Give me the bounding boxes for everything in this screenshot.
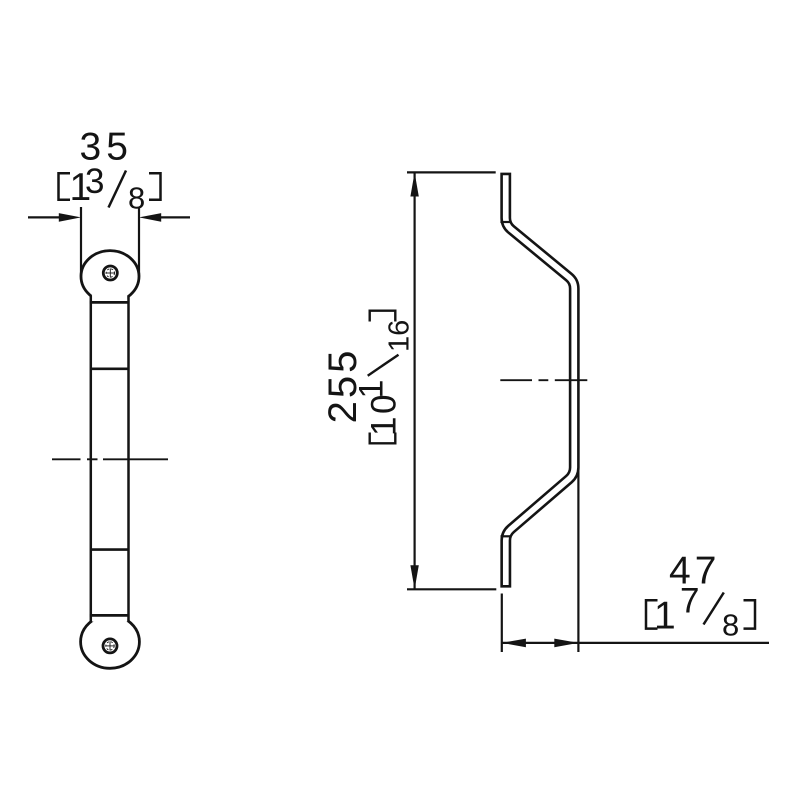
arrow up [410,172,418,196]
extension line bottom [407,588,496,590]
extension line 47 right [577,470,579,652]
dimension line 47 [502,642,769,644]
svg-text:1: 1 [365,417,404,436]
junction line top [90,301,130,304]
bend line bottom [501,535,512,537]
text [10 1/16] (rotated) [353,311,416,444]
centerline left view [52,458,81,460]
bottom screw [103,639,117,653]
arrow left (pointing left) [502,639,526,648]
handle profile outline [506,173,575,588]
extension line top [407,171,496,173]
extension line left (x=81) [80,207,82,276]
svg-text:1: 1 [353,380,391,399]
joint line upper [90,367,129,370]
joint line lower [90,548,129,551]
svg-text:8: 8 [722,608,739,643]
dimension line 255 [414,172,416,589]
stem right edge [127,296,130,622]
top screw [103,266,117,280]
text [1 7/8] [646,600,658,628]
extension line 47 left [501,594,503,653]
svg-text:8: 8 [128,181,145,216]
text [1 3/8] [59,173,71,200]
centerline right view [500,379,532,381]
bottom rosette [81,615,140,668]
arrow right (pointing right) [554,639,578,648]
text 255 (rotated) [321,348,365,424]
stem left edge [90,296,93,622]
svg-text:16: 16 [384,320,416,352]
handle profile inner white [506,175,575,585]
svg-text:7: 7 [680,582,699,621]
bend line top [500,221,511,223]
dimension line 35 left segment [28,216,60,218]
svg-text:1: 1 [654,594,676,637]
arrow right (pointing left) [139,213,161,222]
top rosette [81,251,139,303]
junction line bottom [90,614,130,617]
arrow left (pointing right) [59,213,81,222]
svg-text:3: 3 [85,162,104,201]
extension line right (x=139) [138,207,140,276]
dimension line 35 right segment [161,216,191,218]
stem body mask [92,285,128,622]
arrow down [410,565,418,589]
